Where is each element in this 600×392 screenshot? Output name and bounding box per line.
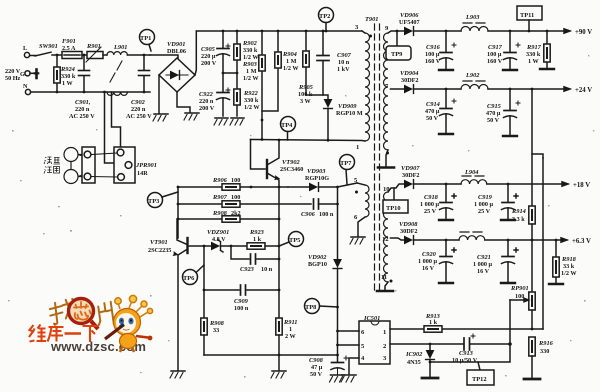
wire pin1 line <box>251 140 366 142</box>
junction R903 top <box>261 30 264 33</box>
wire degauss feed A <box>105 92 126 163</box>
junction C902 top <box>143 54 146 57</box>
junction C918 <box>445 183 448 186</box>
svg-text:100: 100 <box>515 293 524 300</box>
svg-text:330 k: 330 k <box>61 73 76 80</box>
svg-text:RGP10G: RGP10G <box>305 175 329 182</box>
watermark magnifier circle <box>69 299 99 330</box>
svg-text:220 n: 220 n <box>131 106 146 113</box>
svg-text:C914: C914 <box>426 101 440 108</box>
junction pin6 <box>336 330 339 333</box>
resistor R906 <box>222 184 240 190</box>
svg-text:1 M: 1 M <box>246 68 257 75</box>
junction R924 top <box>56 54 59 57</box>
svg-text:AC 250 V: AC 250 V <box>126 113 152 120</box>
junction emitter R906 line <box>278 186 281 189</box>
junction drive node R906 line <box>250 186 253 189</box>
svg-text:30DF2: 30DF2 <box>402 172 420 179</box>
svg-text:TP1: TP1 <box>140 35 151 42</box>
svg-text:100 k: 100 k <box>298 91 313 98</box>
svg-text:330 k: 330 k <box>244 97 259 104</box>
mascot head <box>114 309 141 336</box>
junction R905 top <box>305 30 308 33</box>
svg-text:10 n: 10 n <box>338 59 350 66</box>
resistor R916 <box>529 337 535 378</box>
ground bar R916 <box>524 378 540 381</box>
svg-text:4.8 V: 4.8 V <box>212 236 226 243</box>
zener VDZ901 <box>211 240 247 252</box>
svg-text:C921: C921 <box>477 254 491 261</box>
svg-text:C915: C915 <box>487 103 502 110</box>
svg-text:R904: R904 <box>282 51 297 58</box>
junction C914 <box>445 88 448 91</box>
arrow +6.3V <box>561 238 567 242</box>
svg-text:100 n: 100 n <box>234 305 249 312</box>
wire RP901 wiper down <box>509 300 511 344</box>
test point TP1 <box>140 30 155 52</box>
svg-text:C907: C907 <box>337 52 352 59</box>
capacitor C919 <box>502 184 519 219</box>
IC501 box <box>359 321 390 364</box>
svg-text:2SC2235: 2SC2235 <box>148 247 171 254</box>
resistor R918 <box>553 240 559 283</box>
wire feedback x532 upper <box>532 89 543 158</box>
svg-text:47 μ: 47 μ <box>311 364 323 371</box>
test point TP11 box <box>517 6 542 31</box>
svg-text:C901,: C901, <box>75 99 91 106</box>
junction C909 left <box>203 289 206 292</box>
junction R918 <box>555 239 558 242</box>
junction R903 R904 node <box>261 119 264 122</box>
svg-text:VD902: VD902 <box>308 254 327 261</box>
watermark text zhao (vector) <box>48 299 78 325</box>
capacitor C915 <box>504 89 521 135</box>
junction pin5 <box>336 344 339 347</box>
svg-text:R922: R922 <box>243 90 259 97</box>
diode VD909 <box>324 99 333 140</box>
wire bottom rail <box>204 354 338 356</box>
junction x223 y73 <box>222 72 225 75</box>
resistor R907 <box>222 201 240 207</box>
wire top AC line into bridge <box>150 55 178 58</box>
svg-text:470 μ: 470 μ <box>425 108 440 115</box>
svg-text:R902: R902 <box>242 40 258 47</box>
junction C902 bottom N rail <box>143 91 146 94</box>
svg-text:R903: R903 <box>242 61 258 68</box>
wire pin5 line <box>338 344 360 346</box>
ground C908 <box>330 375 345 382</box>
junction R913 line x532 <box>531 328 534 331</box>
char xia <box>83 326 99 342</box>
svg-text:470 μ: 470 μ <box>486 110 501 117</box>
ground bar C920 <box>439 282 453 284</box>
arrow +18V <box>562 182 568 186</box>
terminal L <box>24 52 29 57</box>
inductor L905 <box>459 232 562 240</box>
ground bar C914 <box>439 133 453 135</box>
junction C906 x330 <box>336 203 339 206</box>
svg-text:10: 10 <box>383 186 390 193</box>
inductor L904 <box>461 176 563 184</box>
svg-text:C902: C902 <box>131 99 146 106</box>
svg-text:2k2: 2k2 <box>231 210 241 217</box>
wire pin10 to diode row <box>388 184 404 192</box>
resistor R922 <box>234 73 240 116</box>
svg-text:R908: R908 <box>212 210 228 217</box>
ground bar C916 <box>439 69 453 71</box>
choke L901 bottom winding <box>107 92 127 95</box>
resistor R904 <box>262 31 281 111</box>
svg-text:200 V: 200 V <box>199 105 215 112</box>
test point TP3 <box>148 192 179 208</box>
svg-text:L: L <box>23 45 27 52</box>
junction C923 right <box>278 258 281 261</box>
svg-text:1: 1 <box>289 326 292 333</box>
svg-text:VT901: VT901 <box>150 239 168 246</box>
svg-text:TP11: TP11 <box>520 12 534 19</box>
svg-text:1 000 μ: 1 000 μ <box>474 201 493 208</box>
svg-text:1/2 W: 1/2 W <box>244 104 260 111</box>
svg-text:C919: C919 <box>478 194 493 201</box>
capacitor C909 <box>204 285 279 295</box>
svg-text:VD908: VD908 <box>399 221 418 228</box>
wire pin11 to ground <box>385 282 388 290</box>
test point TP2 <box>319 8 334 32</box>
svg-text:50 V: 50 V <box>426 115 439 122</box>
junction zener R923 <box>230 245 233 248</box>
svg-text:220 V: 220 V <box>5 68 21 75</box>
thermistor R901 <box>86 47 107 62</box>
choke L901 top winding <box>107 52 127 55</box>
svg-text:12: 12 <box>382 236 389 243</box>
svg-text:R911: R911 <box>283 319 298 326</box>
svg-text:1 kV: 1 kV <box>337 66 350 73</box>
switch SW901 <box>30 52 62 56</box>
junction TP8 <box>336 306 339 309</box>
svg-text:33 k: 33 k <box>563 263 575 270</box>
svg-text:C906: C906 <box>301 211 316 218</box>
junction R904 top <box>277 30 280 33</box>
watermark text pian (vector) <box>95 302 113 326</box>
svg-text:11: 11 <box>381 274 387 281</box>
wire degauss feed B <box>112 92 121 149</box>
watermark weiku text (vector) <box>29 324 99 343</box>
svg-text:C908: C908 <box>309 357 324 364</box>
capacitor C905 <box>217 31 231 73</box>
junction C901 bottom <box>83 91 86 94</box>
svg-text:2 W: 2 W <box>285 333 297 340</box>
svg-text:R906: R906 <box>212 177 228 184</box>
terminal N <box>25 89 30 94</box>
junction C919 <box>507 183 510 186</box>
wire x330 vertical <box>337 187 339 259</box>
svg-text:C923: C923 <box>240 266 255 273</box>
wire pin5 <box>357 183 365 185</box>
diode VD906 <box>404 27 461 36</box>
mascot pen <box>105 325 124 340</box>
svg-text:R917: R917 <box>526 44 542 51</box>
ground bridge <box>153 114 168 121</box>
svg-text:VD901: VD901 <box>167 41 185 48</box>
resistor R908b 33 <box>201 318 207 355</box>
svg-text:F901: F901 <box>62 38 76 45</box>
svg-text:TP9: TP9 <box>391 51 402 58</box>
junction R914 +6.3 rail <box>531 239 534 242</box>
ground bridge second <box>177 92 199 120</box>
ground bar C918 <box>439 219 453 221</box>
svg-text:R905: R905 <box>298 84 314 91</box>
ground bar C921 <box>501 282 515 284</box>
svg-text:+18 V: +18 V <box>573 182 590 189</box>
svg-text:1 k: 1 k <box>253 236 262 243</box>
svg-text:VD909: VD909 <box>338 103 357 110</box>
svg-text:C916: C916 <box>426 44 441 51</box>
svg-text:C918: C918 <box>424 194 439 201</box>
svg-text:1: 1 <box>356 144 359 151</box>
char wei <box>29 325 35 342</box>
svg-text:IC902: IC902 <box>405 351 423 358</box>
diode VD902 <box>333 259 342 362</box>
junction bus R906 <box>177 186 180 189</box>
capacitor C906 <box>314 199 338 209</box>
svg-text:1 W: 1 W <box>528 58 540 65</box>
svg-text:1/2 W: 1/2 W <box>561 270 577 277</box>
junction C905 top <box>222 30 225 33</box>
wire pin6 to ground <box>358 217 365 236</box>
svg-text:16 V: 16 V <box>422 265 435 272</box>
resistor R914 <box>529 206 535 240</box>
svg-text:+6.3 V: +6.3 V <box>572 238 591 245</box>
svg-text:220 μ: 220 μ <box>201 53 216 60</box>
svg-text:30DF2: 30DF2 <box>401 77 419 84</box>
test point TP12 box <box>467 362 494 385</box>
test point TP8 <box>305 299 338 314</box>
junction bottom rail R911 <box>278 354 281 357</box>
junction R924 bottom <box>56 91 59 94</box>
test point TP6 <box>183 265 205 285</box>
wire pin2 line <box>390 343 510 345</box>
svg-text:R908: R908 <box>209 320 225 327</box>
svg-text:50 Hz: 50 Hz <box>5 75 21 82</box>
test point TP10 box <box>383 188 408 213</box>
svg-text:16 V: 16 V <box>477 268 490 275</box>
terminal G <box>25 70 38 79</box>
svg-text:50 V: 50 V <box>310 371 323 378</box>
phase dot secondary bottom <box>386 152 389 155</box>
junction C921 <box>507 239 510 242</box>
ground bar C915 <box>503 135 517 137</box>
ground pin11 bar <box>377 290 393 293</box>
junction base line x204 <box>203 245 206 248</box>
svg-text:1 M: 1 M <box>286 58 297 65</box>
test point TP5 <box>279 232 304 247</box>
char ku <box>48 324 64 342</box>
transformer T901 primary winding <box>365 33 370 141</box>
mascot body <box>120 334 153 353</box>
inductor L903 <box>461 23 565 31</box>
wire bridge south corner to ground <box>158 75 160 113</box>
junction VD903 x330 <box>336 186 339 189</box>
svg-text:C917: C917 <box>488 44 503 51</box>
resistor R911 <box>276 318 282 355</box>
svg-text:+24 V: +24 V <box>575 87 592 94</box>
resistor R923 <box>247 243 279 249</box>
diode VD908 <box>404 236 459 245</box>
junction bus R908 <box>177 218 180 221</box>
junction TP9 stub <box>396 30 399 33</box>
svg-text:220 n: 220 n <box>199 98 214 105</box>
svg-text:L902: L902 <box>465 72 480 79</box>
wire secondary bottom to ground <box>386 150 388 166</box>
svg-text:TP8: TP8 <box>305 304 316 311</box>
transformer feedback winding <box>365 185 369 217</box>
wire pin4 ground <box>349 358 359 374</box>
ground secondary CT bar <box>378 166 394 169</box>
wire x532 to R914 <box>531 154 533 206</box>
svg-text:1 k: 1 k <box>429 319 438 326</box>
wire zener node down <box>203 246 205 318</box>
svg-text:330 k: 330 k <box>243 47 258 54</box>
ground bar C919 <box>501 219 515 221</box>
svg-text:VD907: VD907 <box>401 165 420 172</box>
watermark xin chip glyph <box>74 302 91 320</box>
ground pin4 <box>341 375 356 382</box>
ground R911 <box>271 371 286 378</box>
diode VD907 <box>404 180 461 189</box>
svg-text:160 V: 160 V <box>487 58 503 65</box>
svg-text:330: 330 <box>540 348 549 355</box>
ground bar IC902 <box>422 377 438 380</box>
svg-text:200 V: 200 V <box>201 60 217 67</box>
junction bus R907 <box>177 203 180 206</box>
arrow +90V <box>564 29 570 33</box>
node A junction after fuse <box>83 54 86 57</box>
svg-text:VD904: VD904 <box>400 70 418 77</box>
wire between degauss connectors <box>91 153 118 177</box>
ground bar C917 <box>503 69 517 71</box>
svg-text:33: 33 <box>213 327 219 334</box>
junction +24 feedback tap <box>531 88 534 91</box>
svg-text:R907: R907 <box>212 194 228 201</box>
capacitor C922 <box>217 73 231 116</box>
junction TP11 <box>528 30 531 33</box>
svg-text:TP10: TP10 <box>386 205 401 212</box>
capacitor C923 <box>231 246 279 264</box>
svg-text:R923: R923 <box>249 229 265 236</box>
phase dot feedback <box>355 191 358 194</box>
mascot antennae <box>115 295 153 317</box>
transistor VT901 <box>173 238 187 370</box>
diode VD904 <box>404 85 461 94</box>
resistor R913 <box>424 326 442 332</box>
resistor R917 <box>544 31 550 68</box>
svg-text:R901: R901 <box>86 43 101 50</box>
resistor R903 <box>259 31 265 140</box>
phase dot primary <box>369 35 372 38</box>
label degauss coil chinese (vector strokes) <box>44 157 60 174</box>
wire N rail <box>31 91 150 93</box>
svg-text:4N35: 4N35 <box>407 359 421 366</box>
svg-text:50 V: 50 V <box>487 117 500 124</box>
junction C907 top <box>322 30 325 33</box>
svg-text:220 n: 220 n <box>75 106 90 113</box>
inductor L902 <box>461 81 565 89</box>
test point TP9 box <box>386 31 411 60</box>
capacitor C917 <box>504 31 521 69</box>
capacitor C920 <box>440 240 457 282</box>
svg-text:AC 250 V: AC 250 V <box>69 113 95 120</box>
svg-text:1/2 W: 1/2 W <box>283 65 299 72</box>
svg-text:VDZ901: VDZ901 <box>207 229 229 236</box>
resistor R908 line <box>178 218 279 220</box>
svg-text:25 V: 25 V <box>478 208 491 215</box>
svg-text:L903: L903 <box>465 14 480 21</box>
svg-text:R916: R916 <box>538 340 554 347</box>
svg-text:160 V: 160 V <box>425 58 441 65</box>
svg-text:JPR901: JPR901 <box>135 162 157 169</box>
svg-text:10 μ/50 V: 10 μ/50 V <box>452 357 478 364</box>
svg-text:R924: R924 <box>60 66 75 73</box>
wire emitter-R911 vertical <box>278 187 280 318</box>
svg-text:UF5407: UF5407 <box>399 19 420 26</box>
svg-text:BGP10: BGP10 <box>308 261 327 268</box>
svg-text:1: 1 <box>383 329 386 336</box>
svg-text:30DF2: 30DF2 <box>400 228 418 235</box>
junction pin1 line R903 <box>261 138 264 141</box>
junction IC902 bottom <box>429 361 432 364</box>
wire VT901 collector <box>177 219 186 244</box>
capacitor C907 <box>317 31 329 95</box>
wire left bus <box>177 187 179 238</box>
ground C922 <box>214 118 228 125</box>
ground pin6 <box>350 237 365 244</box>
svg-text:TP5: TP5 <box>289 237 300 244</box>
test point TP4 <box>281 117 296 141</box>
svg-text:100 n: 100 n <box>319 211 334 218</box>
svg-text:G: G <box>20 71 25 78</box>
wire L901 to C902 top <box>127 54 150 56</box>
capacitor C908 <box>331 356 348 374</box>
wire pin6 line <box>338 330 360 332</box>
wire fuse to R901 <box>82 54 87 56</box>
svg-text:RGP10 M: RGP10 M <box>336 110 363 117</box>
svg-text:10 n: 10 n <box>261 266 273 273</box>
svg-text:2.5 A: 2.5 A <box>62 45 76 52</box>
junction C915 <box>509 88 512 91</box>
svg-text:3.3 k: 3.3 k <box>512 216 525 223</box>
svg-text:C909: C909 <box>234 298 249 305</box>
svg-text:14R: 14R <box>137 170 148 177</box>
arrow +24V <box>564 87 570 91</box>
transformer core <box>375 24 380 291</box>
wire bridge east corner up to B+ rail <box>195 31 196 75</box>
svg-text:100 μ: 100 μ <box>487 51 502 58</box>
bridge rectifier VD901 DBL06 <box>159 58 195 92</box>
ground VT901 emitter <box>170 371 185 378</box>
wire node C905/R902 <box>223 72 237 74</box>
svg-text:1/2 W: 1/2 W <box>243 54 259 61</box>
wire snubber bottom <box>306 95 328 99</box>
degaussing coil loops <box>64 148 83 184</box>
svg-text:TP7: TP7 <box>340 160 352 167</box>
svg-text:VD903: VD903 <box>307 168 326 175</box>
svg-text:25 V: 25 V <box>424 208 437 215</box>
transformer secondary upper winding <box>384 33 389 150</box>
ground bar R917 <box>540 68 554 70</box>
wire R911 ground stem <box>278 355 280 370</box>
svg-text:+90 V: +90 V <box>575 29 592 36</box>
svg-text:L904: L904 <box>464 169 479 176</box>
